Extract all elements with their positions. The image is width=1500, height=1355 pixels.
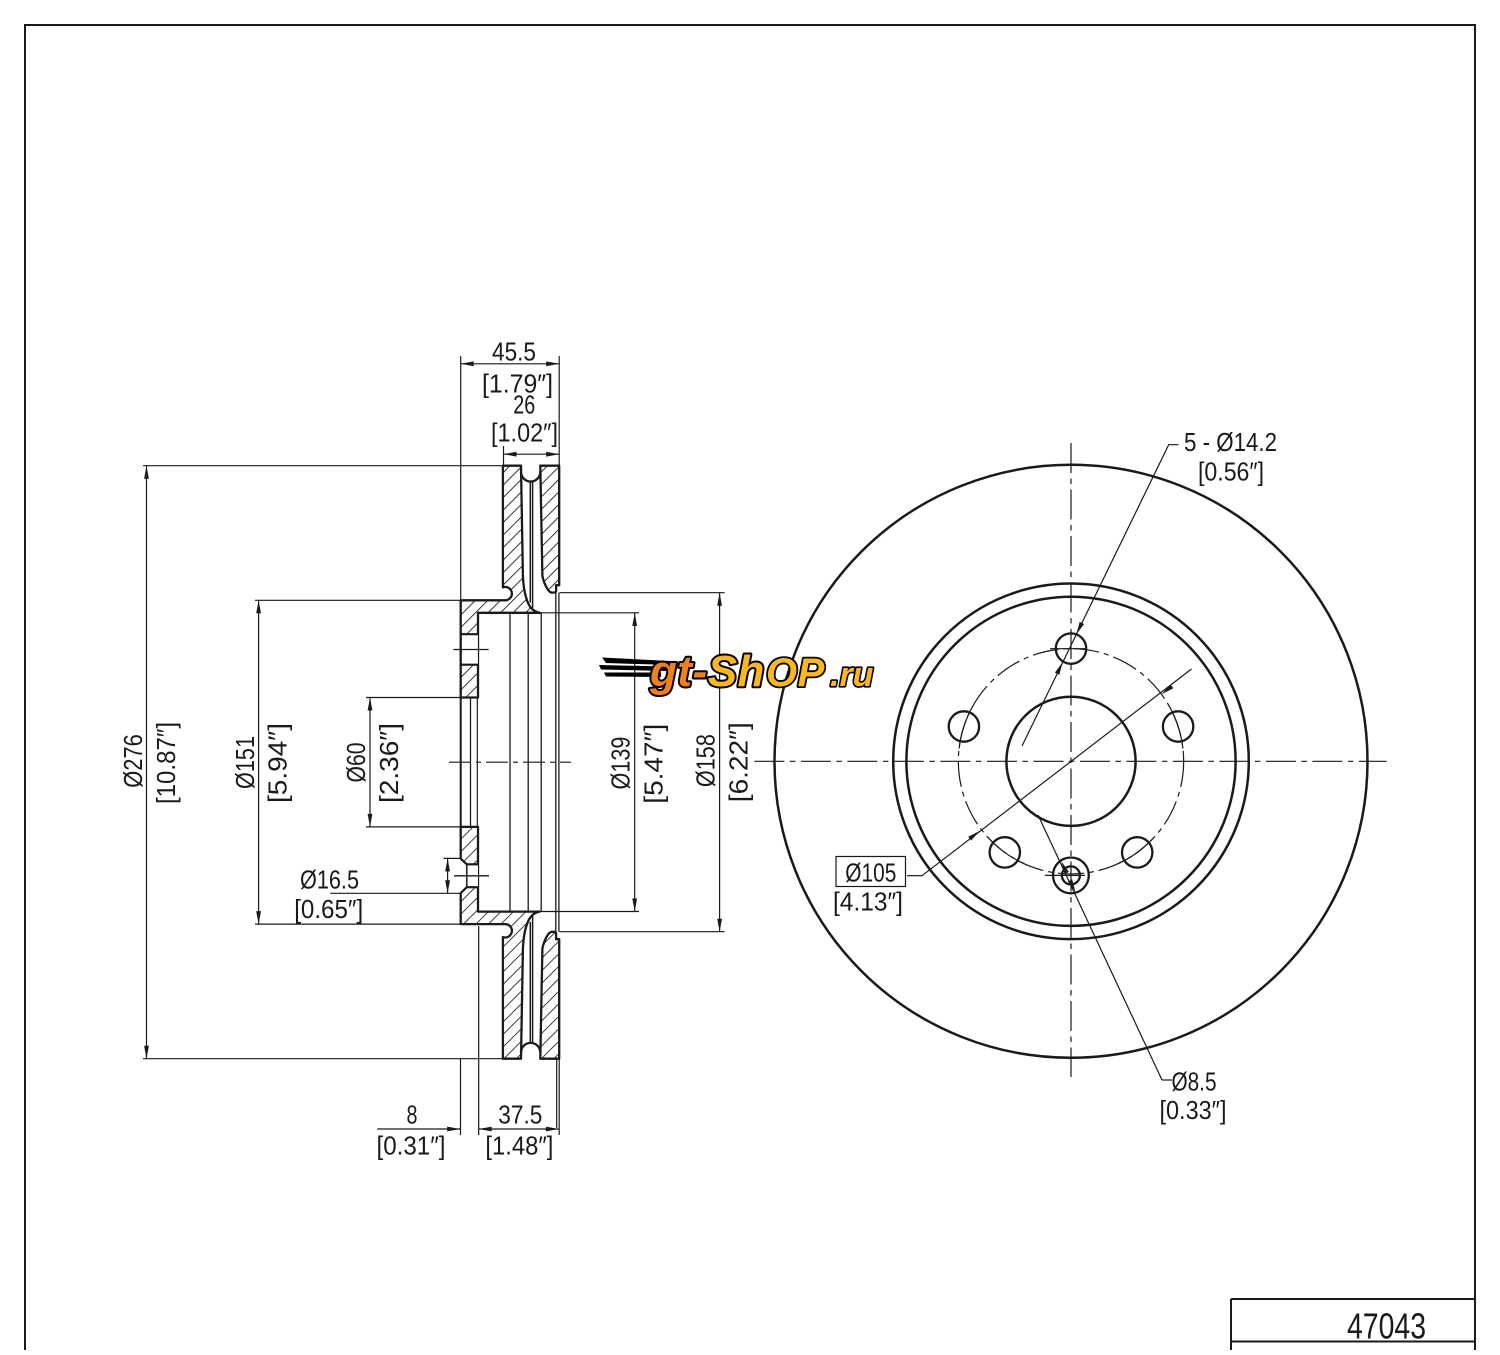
svg-text:[1.02″]: [1.02″] — [491, 418, 558, 448]
svg-text:gt-Sh: gt-Sh — [649, 647, 765, 696]
friction band inner edge circle — [893, 584, 1249, 940]
extension lines top — [460, 356, 462, 600]
svg-text:[6.22″]: [6.22″] — [724, 722, 754, 802]
svg-text:[4.13″]: [4.13″] — [833, 887, 903, 917]
title block — [1231, 1299, 1475, 1350]
section axis centerline — [449, 761, 571, 763]
dim O139 [5.47"] — [606, 613, 669, 912]
svg-text:Ø60: Ø60 — [341, 743, 371, 783]
right friction plate — [540, 466, 559, 593]
vent slot arc (vane end) — [521, 472, 540, 482]
svg-text:[5.94″]: [5.94″] — [263, 723, 293, 803]
mounting face silhouette through bore — [460, 698, 462, 827]
gt-shop.ru watermark logo — [0, 0, 1, 1]
svg-text:[1.48″]: [1.48″] — [485, 1131, 553, 1161]
svg-text:Ø151: Ø151 — [230, 736, 260, 789]
svg-text:Ø105: Ø105 — [845, 858, 896, 888]
dim O151 [5.94"] hat diameter — [230, 600, 293, 924]
svg-text:[10.87″]: [10.87″] — [151, 722, 181, 804]
leader for 5-O14.2 — [1022, 427, 1277, 746]
extension lines bottom — [460, 1059, 462, 1135]
leader for O105 bolt circle — [833, 669, 1192, 917]
extension lines left — [143, 465, 503, 467]
svg-text:.ru: .ru — [830, 656, 874, 694]
svg-text:Ø16.5: Ø16.5 — [300, 865, 359, 895]
svg-text:Ø158: Ø158 — [691, 734, 721, 787]
svg-text:[0.33″]: [0.33″] — [1160, 1095, 1227, 1125]
svg-text:OP: OP — [766, 651, 825, 695]
bolt hole (O14.2) in top flange — [453, 634, 488, 665]
dim O276 [10.87"] outer diameter — [118, 466, 181, 1059]
section half top: hat + left friction plate — [461, 466, 560, 698]
locating hole (O16.5) in bottom flange — [454, 858, 489, 895]
center crosshair — [1070, 443, 1072, 1077]
svg-text:8: 8 — [407, 1100, 418, 1130]
background silhouette lines through section middle — [509, 613, 511, 912]
front view: disc outer circle O276 — [775, 465, 1368, 1058]
dim 37.5 [1.48"] — [479, 1100, 559, 1161]
svg-text:[5.47″]: [5.47″] — [639, 724, 669, 804]
hub bore circle O60 — [1006, 697, 1135, 826]
top hole center tick — [1050, 648, 1085, 650]
svg-text:[0.65″]: [0.65″] — [294, 894, 363, 924]
dim 45.5 [1.79"] overall width — [461, 337, 560, 399]
dim O60 [2.36"] bore — [341, 698, 404, 827]
svg-text:47043: 47043 — [1347, 1306, 1426, 1347]
svg-text:[0.56″]: [0.56″] — [1198, 457, 1264, 487]
svg-text:[0.31″]: [0.31″] — [377, 1131, 446, 1161]
svg-text:26: 26 — [513, 390, 535, 420]
bolt circle O105 (dash-dot) — [958, 649, 1183, 874]
hat flange edge circle — [906, 597, 1235, 926]
svg-text:Ø8.5: Ø8.5 — [1172, 1067, 1217, 1097]
locating hole O16.5 / O8.5 — [1053, 858, 1089, 894]
section half bottom (mirrored): hat + left friction plate — [461, 827, 560, 1059]
svg-text:[2.36″]: [2.36″] — [374, 723, 404, 803]
vent slot arc (vane end) — [521, 1043, 540, 1053]
svg-text:Ø276: Ø276 — [118, 734, 148, 788]
svg-text:5 - Ø14.2: 5 - Ø14.2 — [1184, 427, 1277, 457]
svg-text:45.5: 45.5 — [492, 337, 536, 367]
svg-text:Ø139: Ø139 — [606, 737, 636, 790]
leader for O8.5 — [1038, 815, 1227, 1125]
svg-text:37.5: 37.5 — [498, 1100, 542, 1130]
dim O16.5 [0.65"] locating hole — [294, 858, 450, 924]
dim 26 [1.02"] band width — [491, 390, 559, 457]
vane edge lines — [529, 922, 531, 1043]
hub bore far edge — [470, 698, 472, 827]
right friction plate — [540, 932, 559, 1059]
vane edge lines — [529, 482, 531, 603]
extension lines right — [478, 612, 639, 614]
dim 8 [0.31"] — [377, 1100, 461, 1161]
dim O158 [6.22"] — [691, 593, 754, 932]
five bolt holes O14.2 — [1056, 633, 1086, 663]
